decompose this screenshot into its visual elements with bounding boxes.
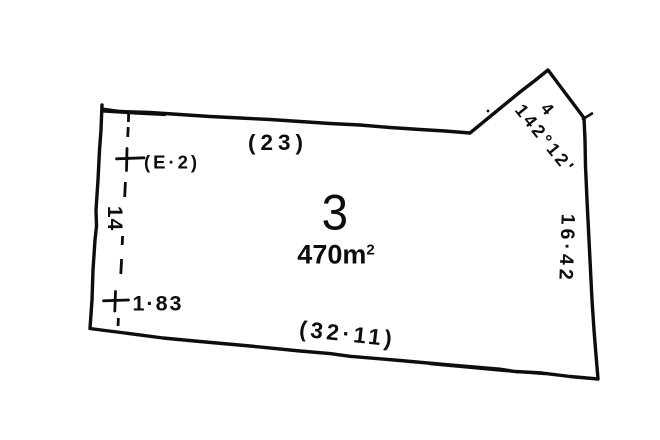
svg-text:(E·2): (E·2) [144, 151, 200, 172]
svg-text:14: 14 [103, 206, 126, 231]
svg-text:1·83: 1·83 [132, 291, 183, 315]
svg-text:470m2: 470m2 [297, 240, 374, 270]
svg-text:16·42: 16·42 [554, 213, 578, 284]
svg-text:3: 3 [322, 185, 348, 240]
svg-text:(23): (23) [248, 130, 308, 155]
